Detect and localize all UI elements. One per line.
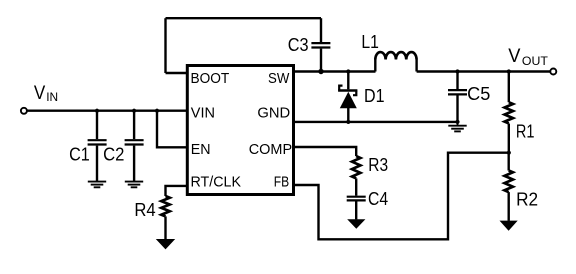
svg-text:VIN: VIN — [34, 82, 58, 104]
svg-text:R4: R4 — [134, 200, 155, 220]
node EN tap — [155, 109, 159, 113]
node R1 top junction — [507, 69, 511, 73]
node C1 tap — [95, 109, 99, 113]
wire RT/CLK branch — [166, 186, 189, 196]
node D1 bottom junction — [346, 120, 350, 124]
svg-text:SW: SW — [268, 70, 290, 87]
svg-text:C5: C5 — [467, 84, 490, 104]
svg-text:VIN: VIN — [191, 105, 215, 122]
svg-text:D1: D1 — [364, 86, 385, 106]
svg-text:L1: L1 — [361, 32, 379, 52]
svg-text:VOUT: VOUT — [508, 45, 548, 68]
IC U1 regulator body — [187, 66, 293, 195]
ground (C1) — [88, 182, 106, 188]
wire GND rail — [294, 121, 458, 123]
node C5 bottom junction — [455, 120, 459, 124]
wire VIN rail — [27, 109, 188, 111]
svg-text:FB: FB — [274, 173, 289, 190]
resistor R3 — [352, 156, 360, 178]
svg-text:C4: C4 — [368, 189, 388, 209]
ground (C5) — [448, 122, 466, 131]
svg-text:C3: C3 — [288, 35, 309, 55]
ground (C4 arrow) — [347, 219, 365, 229]
svg-text:C1: C1 — [69, 144, 90, 164]
diode D1 (schottky) — [338, 72, 357, 122]
resistor R4 — [161, 196, 169, 216]
capacitor C3 — [311, 43, 330, 71]
inductor L1 — [375, 52, 416, 71]
svg-text:R3: R3 — [368, 155, 388, 175]
node C5 top junction — [455, 69, 459, 73]
ground (R2 arrow) — [500, 221, 518, 231]
node C2 tap — [132, 109, 136, 113]
wire BOOT stub — [166, 72, 189, 74]
svg-text:R2: R2 — [516, 190, 538, 210]
resistor R1 — [505, 72, 513, 153]
svg-text:COMP: COMP — [249, 141, 292, 158]
capacitor C5 — [448, 72, 467, 122]
node R1/R2/FB junction — [507, 151, 511, 155]
resistor R2 — [505, 153, 513, 221]
terminal VOUT — [550, 69, 556, 75]
wire FB net — [294, 153, 509, 240]
node D1 top junction — [346, 69, 350, 73]
svg-text:C2: C2 — [103, 144, 124, 164]
node SW/C3/boot junction — [318, 69, 323, 74]
svg-text:EN: EN — [191, 141, 211, 158]
capacitor C4 — [347, 178, 366, 219]
svg-text:R1: R1 — [516, 122, 535, 142]
ground (C2) — [125, 182, 143, 188]
svg-text:RT/CLK: RT/CLK — [191, 173, 242, 190]
svg-text:BOOT: BOOT — [191, 70, 230, 87]
wire R4 to ground — [164, 216, 166, 239]
wire boot loop left vertical — [164, 18, 166, 73]
wire EN branch — [157, 111, 189, 148]
wire boot loop right drop — [320, 18, 322, 42]
wire SW rail right segment — [417, 70, 550, 72]
capacitor C1 — [88, 111, 107, 182]
wire COMP branch — [294, 147, 357, 156]
capacitor C2 — [125, 111, 144, 182]
wire SW rail left segment — [294, 70, 376, 72]
svg-text:GND: GND — [257, 105, 290, 122]
terminal VIN — [21, 108, 27, 114]
wire boot loop top — [166, 17, 322, 19]
ground (R4 arrow) — [156, 239, 175, 249]
